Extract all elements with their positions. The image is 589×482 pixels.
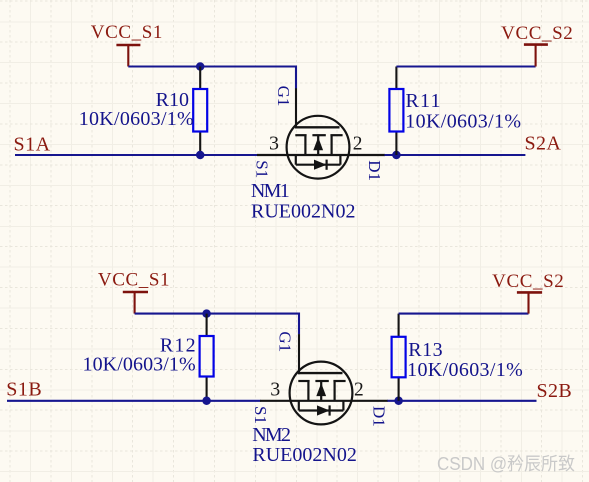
junction S1B / R12 bottom — [202, 397, 211, 406]
junction S1A / R10 bottom — [196, 151, 205, 160]
power port VCC_S2 (top) — [501, 23, 573, 66]
transistor NM2 pin number 2 — [354, 378, 364, 400]
transistor NM2 body circle — [290, 362, 353, 425]
svg-text:CSDN @矜辰所致: CSDN @矜辰所致 — [437, 454, 575, 474]
transistor NM2 pin name G1 — [275, 331, 294, 352]
transistor NM1 pin number 3 — [269, 133, 279, 155]
svg-text:10K/0603/1%: 10K/0603/1% — [407, 359, 523, 381]
wire VCC_S1 to R12 and NM2 gate (bottom rail) — [135, 314, 299, 335]
svg-text:G1: G1 — [274, 86, 293, 107]
transistor NM1 body circle — [287, 116, 350, 179]
transistor NM1 pin name D1 — [365, 160, 384, 181]
svg-text:3: 3 — [270, 378, 280, 400]
svg-text:NM1: NM1 — [251, 180, 289, 202]
svg-text:RUE002N02: RUE002N02 — [252, 444, 356, 466]
wire R13 top to VCC_S2 (bottom) — [399, 313, 529, 315]
svg-text:R11: R11 — [406, 90, 442, 112]
svg-text:10K/0603/1%: 10K/0603/1% — [405, 111, 521, 133]
resistor R13 — [392, 314, 406, 401]
transistor NM1 gate bar — [295, 126, 340, 128]
svg-text:D1: D1 — [370, 406, 389, 427]
transistor NM1 gate pin — [295, 88, 297, 128]
svg-text:R13: R13 — [408, 339, 443, 361]
svg-text:2: 2 — [353, 133, 363, 155]
transistor NM1 source-drain pin line — [257, 154, 385, 156]
svg-text:G1: G1 — [275, 331, 294, 352]
svg-text:3: 3 — [269, 133, 279, 155]
junction S2B / R13 bottom — [394, 397, 403, 406]
transistor NM2 channel contacts — [298, 381, 345, 401]
wire R11 top to VCC_S2 — [396, 65, 535, 67]
resistor R10 — [193, 67, 207, 156]
transistor NM2 body diode — [299, 401, 344, 416]
resistor R11 — [389, 67, 403, 156]
wire VCC_S1 to R10 and NM1 gate (top rail) — [128, 67, 296, 89]
transistor NM1 channel contacts — [295, 135, 342, 155]
transistor NM2 pin number 3 — [270, 378, 280, 400]
wire S1B — [7, 400, 261, 402]
transistor NM1 pin number 2 — [353, 133, 363, 155]
svg-text:VCC_S1: VCC_S1 — [91, 22, 163, 43]
transistor NM1 pin name G1 — [274, 86, 293, 107]
junction VCC rail / R12 top — [202, 309, 211, 318]
transistor NM2 pin name D1 — [370, 406, 389, 427]
transistor NM2 gate bar — [298, 372, 343, 374]
svg-text:S2A: S2A — [525, 133, 562, 155]
svg-text:RUE002N02: RUE002N02 — [251, 200, 355, 222]
svg-text:VCC_S2: VCC_S2 — [492, 271, 564, 292]
wire NM1 drain to S2A — [385, 154, 526, 156]
power port VCC_S1 (top) — [91, 22, 163, 67]
svg-text:VCC_S1: VCC_S1 — [98, 270, 170, 291]
transistor NM2 pin name S1 — [251, 406, 270, 424]
transistor NM1 body diode — [296, 155, 341, 170]
svg-text:S1A: S1A — [14, 134, 51, 156]
junction VCC rail / R10 top — [196, 62, 205, 71]
svg-text:S1: S1 — [252, 160, 271, 178]
power port VCC_S1 (bottom) — [98, 270, 170, 314]
wire S1A — [15, 154, 258, 156]
svg-text:2: 2 — [354, 378, 364, 400]
transistor NM2 gate pin — [298, 334, 300, 374]
svg-text:10K/0603/1%: 10K/0603/1% — [82, 354, 195, 376]
transistor NM2 source-drain pin line — [260, 400, 388, 402]
svg-text:S2B: S2B — [537, 380, 573, 402]
svg-text:S1: S1 — [251, 406, 270, 424]
power port VCC_S2 (bottom) — [492, 271, 564, 314]
transistor NM1 pin name S1 — [252, 160, 271, 178]
resistor R12 — [200, 314, 214, 401]
svg-text:VCC_S2: VCC_S2 — [501, 23, 573, 44]
wire NM2 drain to S2B — [388, 400, 537, 402]
svg-text:S1B: S1B — [6, 379, 42, 401]
svg-text:10K/0603/1%: 10K/0603/1% — [79, 108, 194, 130]
svg-text:D1: D1 — [365, 160, 384, 181]
junction S2A / R11 bottom — [392, 151, 401, 160]
